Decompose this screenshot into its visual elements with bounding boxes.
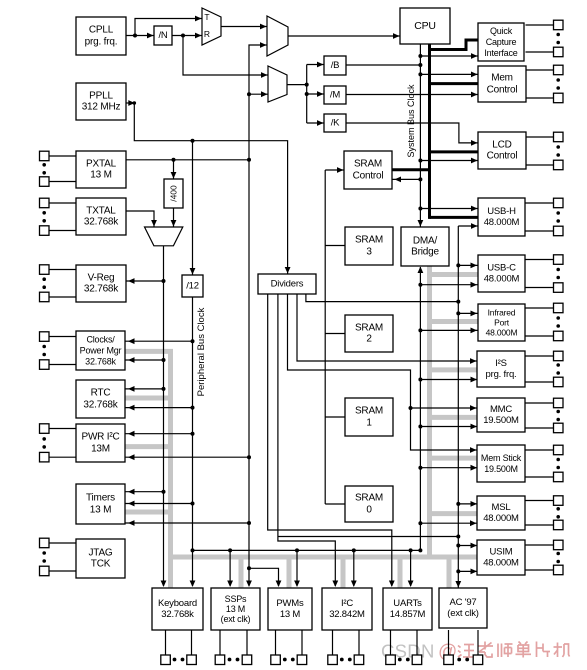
svg-text:I²C: I²C: [341, 598, 353, 609]
svg-text:prg. frq.: prg. frq.: [486, 369, 517, 380]
svg-text:Infrared: Infrared: [488, 308, 516, 318]
svg-text:Port: Port: [494, 318, 510, 328]
svg-text:Capture: Capture: [486, 37, 517, 47]
svg-text:T: T: [204, 12, 209, 22]
svg-text:48.000M: 48.000M: [484, 217, 520, 228]
svg-text:3: 3: [366, 246, 372, 257]
svg-text:CPLL: CPLL: [89, 25, 114, 36]
svg-text:Control: Control: [487, 84, 518, 95]
svg-text:Timers: Timers: [86, 493, 115, 504]
svg-text:2: 2: [366, 334, 372, 345]
svg-text:prg. frq.: prg. frq.: [85, 36, 118, 47]
svg-text:/12: /12: [186, 281, 199, 292]
svg-text:R: R: [204, 29, 210, 39]
svg-text:(ext clk): (ext clk): [447, 608, 478, 619]
svg-text:13 M: 13 M: [90, 170, 111, 181]
svg-text:19.500M: 19.500M: [484, 464, 518, 474]
svg-text:Control: Control: [353, 170, 384, 181]
svg-text:LCD: LCD: [492, 139, 511, 150]
svg-text:(ext clk): (ext clk): [221, 614, 251, 624]
svg-text:Dividers: Dividers: [271, 279, 304, 290]
svg-text:SRAM: SRAM: [355, 322, 383, 333]
svg-text:/B: /B: [331, 60, 340, 71]
svg-text:DMA/: DMA/: [413, 235, 438, 246]
svg-text:SRAM: SRAM: [355, 493, 383, 504]
svg-text:48.000M: 48.000M: [483, 558, 519, 569]
svg-text:48.000M: 48.000M: [484, 274, 520, 285]
svg-text:CPU: CPU: [414, 20, 436, 32]
svg-text:Quick: Quick: [490, 26, 513, 36]
svg-text:JTAG: JTAG: [88, 547, 112, 558]
svg-text:System Bus Clock: System Bus Clock: [406, 84, 416, 158]
svg-text:Control: Control: [487, 151, 518, 162]
svg-text:14.857M: 14.857M: [390, 609, 426, 620]
svg-text:MMC: MMC: [490, 404, 512, 415]
svg-text:PWMs: PWMs: [276, 598, 304, 609]
svg-text:PPLL: PPLL: [89, 90, 113, 101]
svg-text:/N: /N: [158, 30, 167, 41]
svg-text:0: 0: [366, 504, 372, 515]
svg-text:32.768k: 32.768k: [85, 356, 116, 366]
svg-text:SRAM: SRAM: [354, 159, 382, 170]
svg-text:Clocks/: Clocks/: [86, 335, 115, 345]
svg-text:/M: /M: [330, 90, 340, 101]
svg-text:32.768k: 32.768k: [84, 217, 119, 228]
svg-text:48.000M: 48.000M: [483, 513, 519, 524]
svg-text:Bridge: Bridge: [411, 247, 439, 258]
svg-text:PWR I²C: PWR I²C: [81, 432, 119, 443]
svg-text:1: 1: [366, 417, 372, 428]
svg-text:USB-H: USB-H: [487, 206, 516, 217]
svg-text:USB-C: USB-C: [487, 263, 516, 274]
svg-text:32.768k: 32.768k: [161, 609, 194, 620]
svg-text:TXTAL: TXTAL: [86, 205, 116, 216]
svg-text:SRAM: SRAM: [355, 235, 383, 246]
svg-text:RTC: RTC: [91, 388, 111, 399]
svg-text:USIM: USIM: [490, 547, 513, 558]
svg-text:AC '97: AC '97: [449, 597, 476, 608]
svg-text:32.842M: 32.842M: [329, 609, 365, 620]
svg-text:Mem Stick: Mem Stick: [481, 453, 522, 463]
svg-text:19.500M: 19.500M: [483, 415, 519, 426]
svg-text:SSPs: SSPs: [225, 594, 247, 604]
svg-text:MSL: MSL: [492, 502, 511, 513]
svg-text:13 M: 13 M: [90, 504, 111, 515]
svg-text:UARTs: UARTs: [393, 598, 422, 609]
svg-text:312 MHz: 312 MHz: [82, 102, 121, 113]
svg-text:/400: /400: [169, 185, 179, 202]
svg-text:48.000M: 48.000M: [486, 328, 518, 338]
svg-text:I²S: I²S: [495, 358, 507, 369]
svg-text:32.768k: 32.768k: [83, 399, 118, 410]
svg-text:13M: 13M: [91, 443, 110, 454]
svg-text:32.768k: 32.768k: [84, 284, 119, 295]
svg-text:TCK: TCK: [91, 559, 111, 570]
svg-text:Power Mgr: Power Mgr: [80, 346, 122, 356]
svg-text:13 M: 13 M: [280, 609, 301, 620]
svg-text:SRAM: SRAM: [355, 406, 383, 417]
svg-text:PXTAL: PXTAL: [86, 158, 117, 169]
svg-text:Mem: Mem: [491, 73, 513, 84]
svg-text:Keyboard: Keyboard: [158, 598, 197, 609]
svg-text:13 M: 13 M: [226, 604, 245, 614]
svg-text:V-Reg: V-Reg: [88, 272, 115, 283]
svg-text:/K: /K: [331, 118, 340, 129]
svg-text:Interface: Interface: [484, 48, 517, 58]
svg-text:Peripheral Bus Clock: Peripheral Bus Clock: [196, 307, 207, 396]
